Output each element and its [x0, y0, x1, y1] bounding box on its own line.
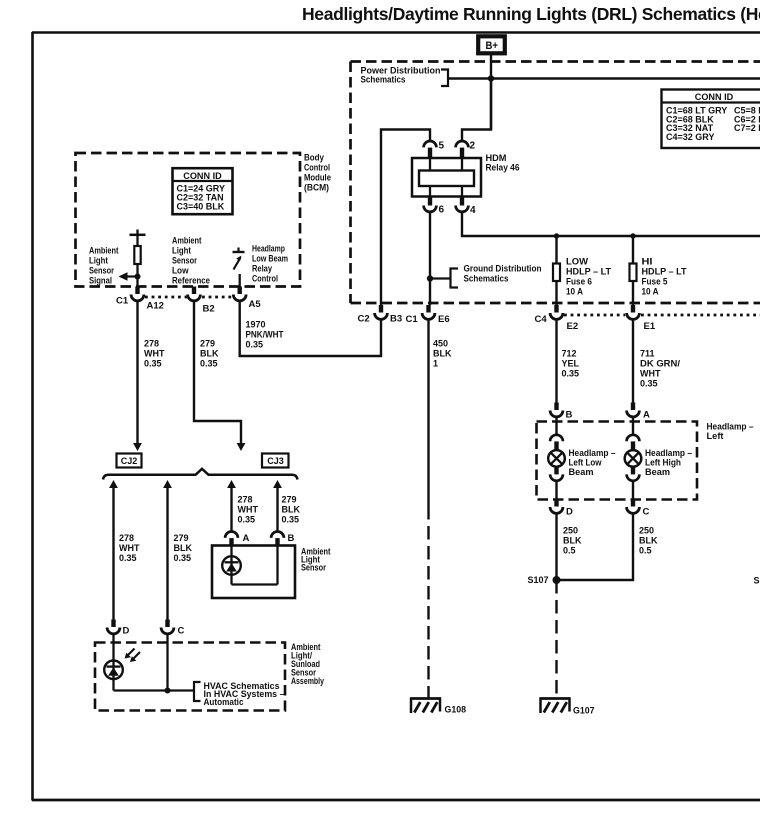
svg-text:Module: Module: [304, 173, 331, 183]
connector pin C headlamp: [627, 499, 640, 513]
svg-text:DK GRN/: DK GRN/: [640, 359, 681, 369]
node junction C wire: [165, 688, 171, 694]
svg-text:D: D: [123, 626, 130, 637]
power distribution schematics bracket: [441, 70, 448, 87]
svg-text:6: 6: [439, 205, 445, 216]
label Ambient Light/Sunload Sensor Assembly: [291, 642, 324, 686]
arrow wire 279 from CJ2: [163, 480, 172, 488]
svg-text:YEL: YEL: [562, 359, 580, 369]
wire relay pin 4 feed bus: [462, 212, 760, 236]
brace splice pack: [103, 469, 298, 480]
svg-text:HDM: HDM: [486, 153, 507, 163]
label 250 BLK 0.5 high: [639, 526, 658, 556]
ambient light/sunload sensor assembly dashed box: [95, 643, 285, 711]
svg-text:278: 278: [144, 339, 159, 349]
svg-text:E2: E2: [567, 321, 579, 332]
svg-text:A12: A12: [147, 301, 164, 312]
svg-text:0.35: 0.35: [562, 369, 580, 379]
wire B+ horizontal bus: [448, 77, 760, 79]
fuse F6 LOW HDLP-LT: [553, 264, 560, 282]
node splice S107: [553, 576, 561, 584]
relay U HDM pin 6: [424, 197, 437, 212]
svg-text:BLK: BLK: [639, 536, 658, 546]
label 1970 PNK/WHT 0.35: [246, 320, 284, 350]
connector pin B headlamp: [550, 403, 563, 417]
svg-text:Left: Left: [707, 431, 724, 441]
svg-text:C4: C4: [535, 314, 548, 325]
relay U HDM pin 5: [424, 141, 437, 158]
wire 711 DK GRN/WHT from E1: [632, 320, 634, 403]
svg-text:PNK/WHT: PNK/WHT: [246, 330, 284, 340]
wire tap to bracket: [430, 277, 451, 279]
connector C4 dotted line: [564, 314, 760, 317]
svg-text:Headlamp –: Headlamp –: [707, 422, 754, 432]
connector pin D assembly: [107, 620, 120, 634]
svg-text:Sensor: Sensor: [172, 256, 197, 266]
arrow ambient light sensor signal: [119, 272, 128, 280]
svg-text:Body: Body: [304, 153, 324, 163]
svg-text:Control: Control: [304, 163, 330, 173]
svg-text:0.35: 0.35: [640, 379, 658, 389]
wire fuse 6 drop: [555, 236, 557, 305]
svg-text:HDLP – LT: HDLP – LT: [642, 267, 688, 277]
light rays arrows: [125, 649, 141, 663]
wire D into sensor: [112, 635, 114, 691]
wire B into lamp: [555, 417, 557, 435]
svg-text:Fuse 6: Fuse 6: [566, 277, 592, 287]
label 250 BLK 0.5 low: [563, 526, 582, 556]
svg-text:1970: 1970: [246, 320, 266, 330]
svg-text:2: 2: [470, 141, 476, 152]
ambient light sensor box: [212, 546, 295, 599]
wire B+ to relay pin 2: [462, 79, 491, 142]
svg-text:Schematics: Schematics: [361, 75, 406, 85]
svg-text:Schematics: Schematics: [464, 274, 509, 284]
svg-text:278: 278: [238, 495, 253, 505]
svg-text:WHT: WHT: [144, 349, 165, 359]
svg-text:BLK: BLK: [200, 349, 219, 359]
lamp socket pin high beam top: [627, 435, 640, 451]
svg-text:279: 279: [174, 533, 189, 543]
label Power Distribution Schematics: [361, 66, 441, 85]
arrow wire 278 from CJ3: [227, 480, 236, 488]
wire relay pin 5 to C2 B3: [381, 130, 430, 306]
svg-text:Sensor: Sensor: [301, 563, 326, 573]
wire 712 YEL from E2: [555, 320, 557, 403]
label 278 WHT 0.35: [238, 495, 259, 525]
wire signal arrow: [127, 275, 138, 277]
label HDM Relay 46: [486, 153, 520, 173]
svg-text:0.35: 0.35: [200, 359, 218, 369]
svg-text:Reference: Reference: [172, 276, 210, 286]
node junction B+ bus: [488, 75, 494, 81]
wire sensor internal B: [276, 546, 278, 585]
svg-text:Beam: Beam: [569, 467, 594, 477]
svg-text:Headlights/Daytime Running Lig: Headlights/Daytime Running Lights (DRL) …: [302, 4, 760, 24]
wire high beam to C pin: [632, 481, 634, 499]
conn id table (BCM): [173, 168, 233, 214]
svg-text:WHT: WHT: [640, 369, 661, 379]
svg-text:A: A: [243, 533, 250, 544]
node B+: [478, 36, 505, 53]
svg-text:10 A: 10 A: [642, 287, 660, 297]
svg-text:HDLP – LT: HDLP – LT: [566, 267, 612, 277]
label fuse 5: [642, 257, 688, 297]
wire relay pin 6 to E6: [429, 212, 431, 305]
label HVAC Schematics in HVAC Systems Automatic: [204, 681, 285, 707]
lamp headlamp left low beam: [548, 450, 565, 467]
svg-text:CJ2: CJ2: [121, 456, 138, 466]
svg-text:BLK: BLK: [174, 543, 193, 553]
wire 450 BLK solid part: [427, 320, 429, 506]
wire B+ feed down: [490, 55, 492, 130]
svg-text:C7=2 B: C7=2 B: [734, 123, 760, 133]
photodiode sunload sensor: [104, 661, 123, 680]
svg-text:250: 250: [563, 526, 578, 536]
svg-text:B+: B+: [486, 40, 499, 52]
svg-text:0.35: 0.35: [119, 553, 137, 563]
svg-text:278: 278: [119, 533, 134, 543]
label 278 WHT 0.35: [119, 533, 140, 563]
label Headlamp Left Low Beam: [569, 448, 616, 477]
label Ambient Light Sensor: [301, 547, 331, 573]
svg-text:0.35: 0.35: [282, 515, 300, 525]
label Headlamp Left: [707, 422, 754, 442]
headlamp left dashed box: [537, 422, 698, 500]
svg-text:279: 279: [282, 495, 297, 505]
label Ambient Light Sensor Low Reference: [172, 236, 210, 286]
svg-text:Left Low: Left Low: [569, 458, 602, 468]
wire low beam to D pin: [555, 481, 557, 499]
ground distribution schematics bracket: [451, 269, 459, 288]
wire A into lamp: [632, 417, 634, 435]
svg-text:0.5: 0.5: [639, 546, 652, 556]
svg-text:450: 450: [433, 339, 448, 349]
connector C1 pin E6: [422, 305, 435, 319]
svg-text:4: 4: [470, 205, 476, 216]
wire 250 BLK from C to S107: [557, 514, 634, 580]
label 712 YEL 0.35: [562, 349, 580, 379]
node CJ3: [262, 454, 289, 468]
resistor ambient light sensor pull-up: [130, 230, 146, 287]
node junction fuse 5 tap: [630, 233, 635, 238]
label Ambient Light Sensor Signal: [89, 246, 119, 286]
label 450 BLK 1: [433, 339, 452, 369]
svg-text:Sensor: Sensor: [89, 266, 114, 276]
svg-text:Light: Light: [172, 246, 191, 256]
svg-text:B: B: [566, 410, 573, 421]
node junction fuse 6 tap: [554, 233, 559, 238]
svg-text:C4=32 GRY: C4=32 GRY: [666, 132, 714, 142]
photodiode ambient light sensor: [222, 556, 241, 575]
relay U HDM pin 4: [456, 197, 469, 212]
wire 279 BLK to sensor B: [276, 488, 278, 532]
wire 279 BLK to C: [166, 488, 168, 620]
connector C4 pin E1: [627, 305, 640, 319]
svg-text:Fuse 5: Fuse 5: [642, 277, 668, 287]
svg-text:250: 250: [639, 526, 654, 536]
wire sensor internal A: [230, 546, 232, 585]
svg-text:C2: C2: [358, 314, 370, 325]
wire 450 BLK dashed part: [427, 506, 429, 698]
svg-text:1: 1: [433, 359, 438, 369]
arrow wire 279 into CJ3: [237, 443, 246, 451]
label fuse 6: [566, 257, 612, 297]
HVAC schematics bracket: [194, 682, 201, 701]
svg-text:Control: Control: [252, 274, 278, 284]
svg-text:S107: S107: [527, 575, 548, 585]
svg-text:C3=40 BLK: C3=40 BLK: [177, 201, 225, 211]
svg-text:Signal: Signal: [89, 276, 112, 286]
svg-text:BLK: BLK: [282, 505, 301, 515]
wire C into sensor: [166, 635, 168, 691]
lamp socket pin high beam bottom: [627, 466, 640, 480]
switch headlamp low beam relay driver: [233, 248, 245, 287]
connector C1 pin B2: [188, 287, 201, 301]
svg-text:G108: G108: [445, 705, 467, 715]
svg-text:Light: Light: [89, 256, 108, 266]
wire 250 BLK from D to S107: [555, 514, 557, 580]
label Body Control Module (BCM): [304, 153, 331, 193]
svg-text:0.5: 0.5: [563, 546, 576, 556]
svg-text:5: 5: [439, 141, 445, 152]
svg-text:Relay: Relay: [252, 264, 272, 274]
svg-text:712: 712: [562, 349, 577, 359]
svg-text:Relay 46: Relay 46: [486, 163, 520, 173]
wire S107 to G107 dashed: [555, 580, 557, 698]
svg-text:Headlamp –: Headlamp –: [569, 448, 616, 458]
svg-text:Ambient: Ambient: [89, 246, 119, 256]
label 279 BLK 0.35: [282, 495, 301, 525]
connector pin A headlamp: [627, 403, 640, 417]
relay U HDM pin 2: [456, 141, 469, 158]
connector pin C assembly: [161, 620, 174, 634]
wire 1970 PNK/WHT from A5 to C2 B3: [240, 302, 381, 357]
svg-text:Low: Low: [172, 266, 189, 276]
svg-text:Low Beam: Low Beam: [252, 254, 288, 264]
svg-text:Ground Distribution: Ground Distribution: [464, 264, 542, 274]
wire 278 WHT from A12: [136, 302, 138, 444]
svg-text:0.35: 0.35: [246, 340, 264, 350]
lamp socket pin low beam bottom: [550, 466, 563, 480]
wire internal bottom to bracket: [114, 689, 195, 691]
svg-text:279: 279: [200, 339, 215, 349]
svg-text:Ambient: Ambient: [172, 236, 202, 246]
node CJ2: [117, 454, 142, 468]
lamp socket pin low beam top: [550, 435, 563, 451]
svg-text:CONN ID: CONN ID: [183, 171, 222, 182]
svg-text:BLK: BLK: [433, 349, 452, 359]
svg-text:G107: G107: [573, 706, 595, 716]
connector C2 pin B3: [375, 305, 388, 319]
fuse F5 HI HDLP-LT: [630, 264, 637, 282]
svg-text:0.35: 0.35: [174, 553, 192, 563]
wire sensor internal bottom: [232, 583, 278, 585]
conn id table (power distribution): [662, 90, 760, 149]
label 279 BLK 0.35: [200, 339, 219, 369]
connector C1 pin A5: [233, 287, 246, 301]
ground G108: [410, 698, 441, 714]
connector C1 pin A12: [131, 287, 144, 301]
svg-text:711: 711: [640, 349, 655, 359]
wire fuse 5 drop: [632, 236, 634, 305]
connector C4 pin E2: [550, 305, 563, 319]
svg-text:A5: A5: [249, 299, 262, 310]
svg-text:10 A: 10 A: [566, 287, 584, 297]
svg-text:CJ3: CJ3: [267, 456, 284, 466]
svg-text:0.35: 0.35: [238, 515, 256, 525]
label 279 BLK 0.35: [174, 533, 193, 563]
ambient light sensor pin A: [225, 532, 238, 547]
svg-text:C1: C1: [116, 296, 129, 307]
svg-text:Headlamp: Headlamp: [252, 244, 285, 254]
svg-text:E6: E6: [438, 314, 450, 325]
svg-text:D: D: [566, 507, 573, 518]
ground G107: [540, 698, 571, 714]
svg-text:LOW: LOW: [566, 257, 589, 267]
arrow wire 278 from CJ2: [109, 480, 118, 488]
svg-text:B: B: [288, 533, 295, 544]
svg-text:B3: B3: [390, 314, 402, 325]
svg-text:(BCM): (BCM): [304, 183, 329, 193]
svg-text:Automatic: Automatic: [204, 697, 244, 707]
svg-text:C: C: [178, 626, 185, 637]
svg-text:BLK: BLK: [563, 536, 582, 546]
svg-text:Assembly: Assembly: [291, 676, 324, 686]
ambient light sensor pin B: [271, 532, 284, 547]
svg-text:Left High: Left High: [645, 458, 681, 468]
label Ground Distribution Schematics: [464, 264, 542, 284]
node junction ground distribution tap: [427, 275, 433, 281]
node junction signal tap: [135, 274, 141, 280]
svg-text:B2: B2: [203, 304, 215, 315]
wire 278 WHT to sensor A: [230, 488, 232, 532]
svg-text:CONN ID: CONN ID: [695, 92, 734, 103]
svg-text:C: C: [643, 507, 650, 518]
svg-text:E1: E1: [644, 321, 656, 332]
label 278 WHT 0.35: [144, 339, 165, 369]
svg-text:Beam: Beam: [645, 467, 670, 477]
wire 278 WHT to D: [112, 488, 114, 620]
connector C1 dotted line: [145, 296, 233, 299]
arrow wire 278 into CJ2: [133, 443, 142, 451]
svg-text:HI: HI: [642, 257, 653, 267]
label Headlamp Low Beam Relay Control: [252, 244, 288, 284]
svg-text:0.35: 0.35: [144, 359, 162, 369]
svg-text:WHT: WHT: [238, 505, 259, 515]
svg-text:C1: C1: [406, 314, 419, 325]
svg-text:S1: S1: [754, 576, 760, 586]
lamp headlamp left high beam: [625, 450, 642, 467]
power distribution dashed box: [351, 62, 760, 304]
svg-text:A: A: [643, 410, 650, 421]
wire 279 BLK from B2: [194, 302, 241, 444]
relay HDM Relay 46 box: [412, 158, 481, 197]
BCM body control module dashed box: [76, 153, 301, 287]
label Headlamp Left High Beam: [645, 448, 692, 477]
svg-text:Headlamp –: Headlamp –: [645, 448, 692, 458]
label 711 DK GRN/WHT 0.35: [640, 349, 681, 389]
svg-text:WHT: WHT: [119, 543, 140, 553]
arrow wire 279 from CJ3: [273, 480, 282, 488]
connector pin D headlamp: [550, 499, 563, 513]
